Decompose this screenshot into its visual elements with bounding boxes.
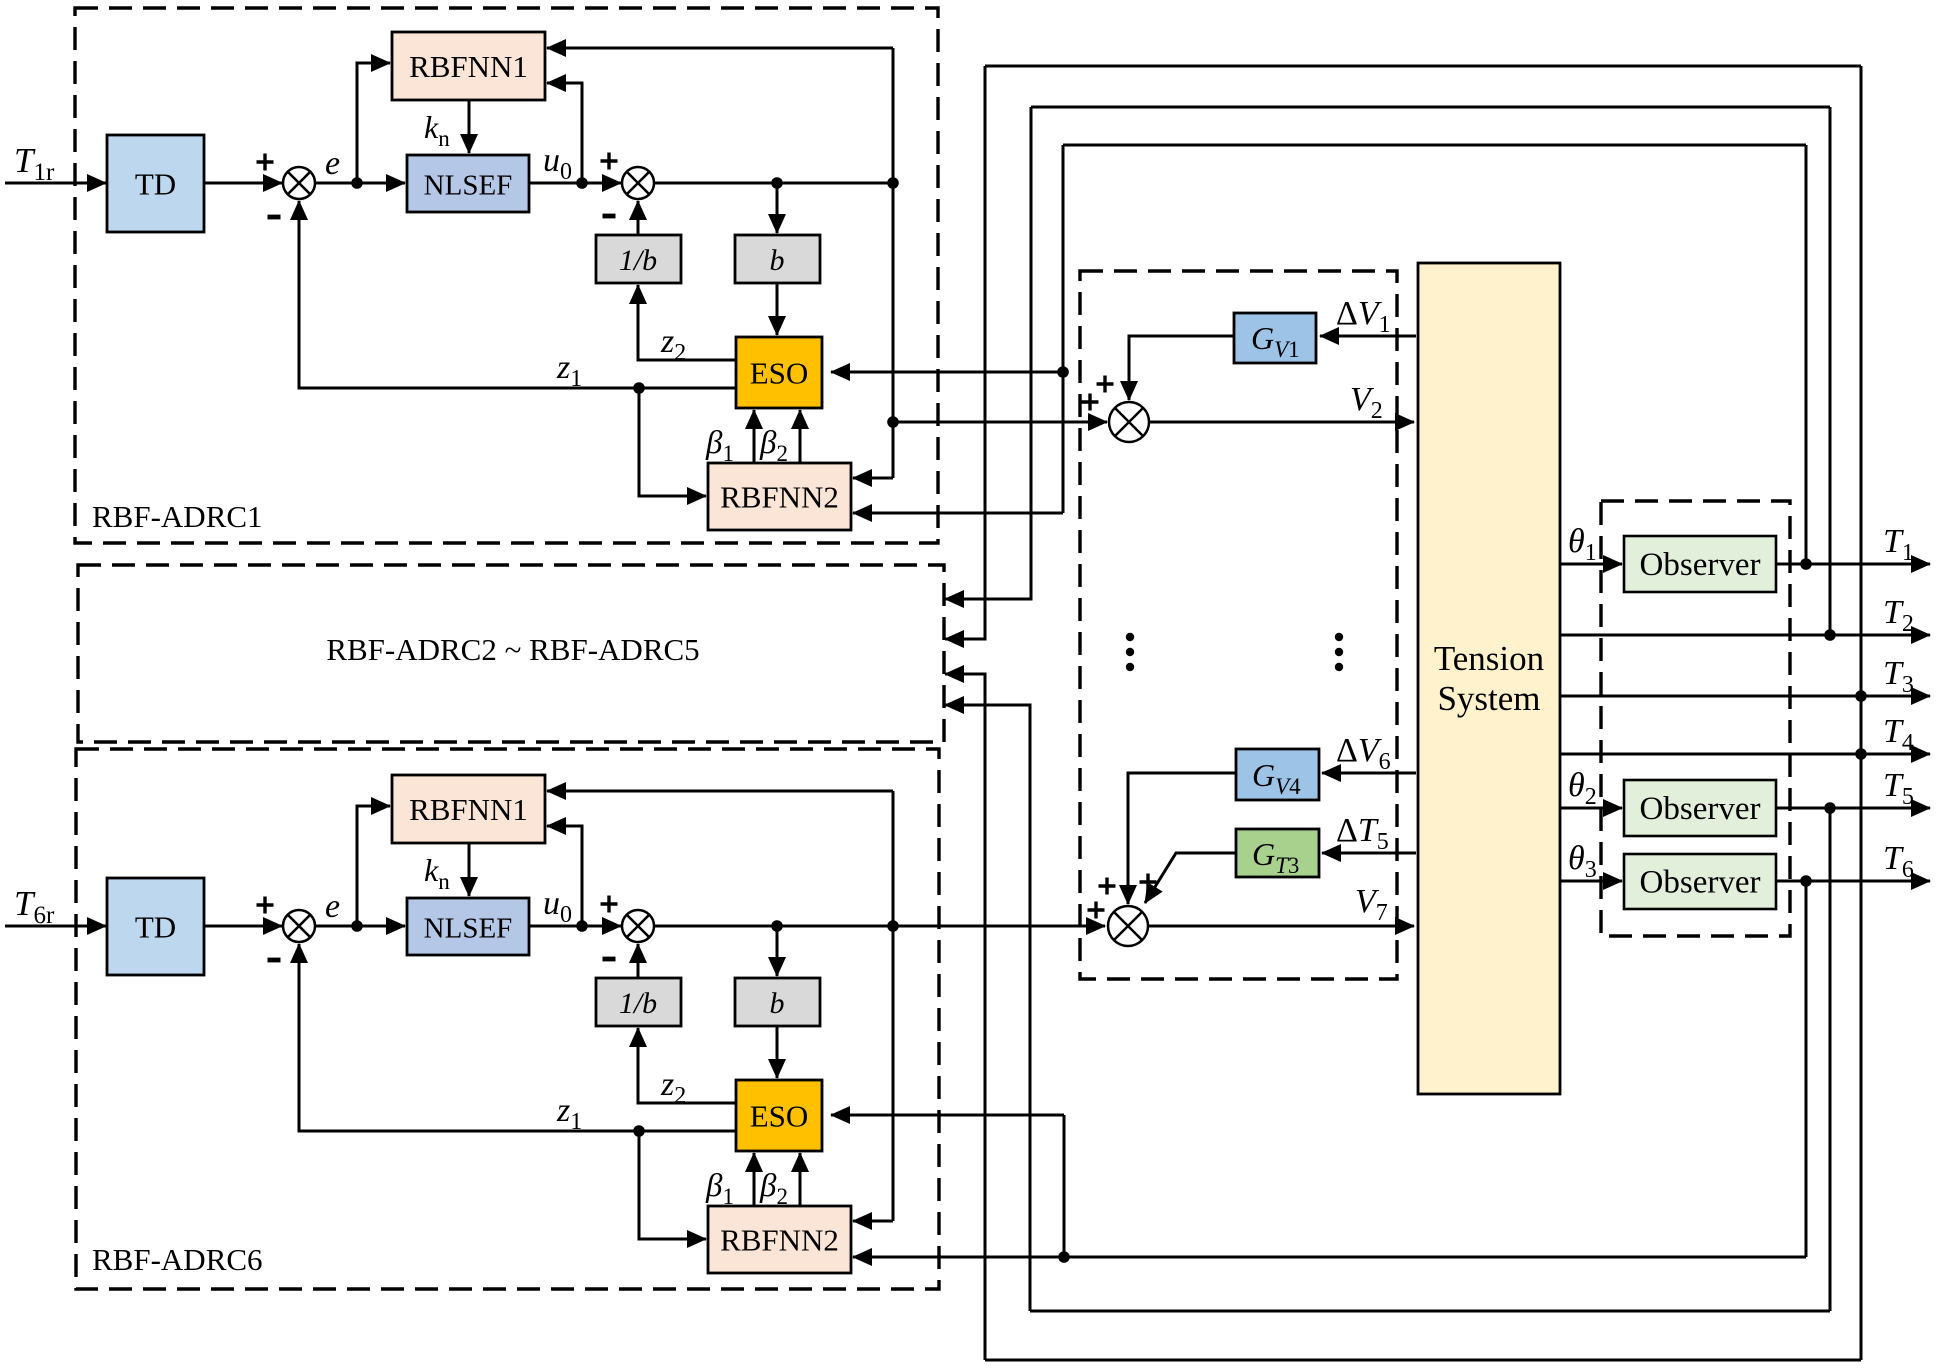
wire NLSEF to second sum with node u0 — [529, 925, 621, 928]
wire 1/b to second sum — [637, 944, 640, 978]
wire NLSEF to second sum with node u0 — [529, 182, 621, 185]
wire b to ESO — [776, 1026, 779, 1078]
dashed boundary speed-coupling block — [1080, 271, 1397, 979]
wire T1 output — [1776, 563, 1930, 566]
wire u vertical x=893 (module6) — [892, 791, 895, 1221]
svg-text:e: e — [325, 145, 340, 182]
wire T6 output — [1776, 880, 1930, 883]
svg-text:1/b: 1/b — [619, 244, 657, 277]
block RBFNN2-1 — [708, 463, 851, 530]
wire V7 lower plant sum to tension system — [1148, 925, 1414, 928]
block b gain 6 — [735, 978, 820, 1026]
block NLSEF1 — [407, 155, 529, 212]
wire beta2 RBFNN2 to ESO — [799, 1153, 802, 1206]
block Observer 1 — [1624, 536, 1776, 592]
dashed boundary observers — [1601, 501, 1790, 936]
svg-text:NLSEF: NLSEF — [424, 170, 513, 202]
block 1/b gain 1 — [596, 235, 681, 283]
wire u0 up to RBFNN1 right lower input — [547, 83, 582, 183]
block RBFNN1-6 — [392, 775, 545, 843]
block TD6 — [107, 878, 204, 975]
wire z1 node down to RBFNN2 left input — [639, 1131, 706, 1239]
block ESO1 — [736, 337, 822, 408]
svg-text:Observer: Observer — [1640, 791, 1761, 827]
node on z1 wire — [633, 1125, 645, 1137]
svg-text:ESO: ESO — [750, 1099, 809, 1134]
block TD1 — [107, 135, 204, 232]
wire into RBFNN2 upper right input (module1) — [853, 477, 893, 480]
wire bottom line y=1311 T5 feedback — [1030, 1310, 1830, 1313]
block b gain 1 — [735, 235, 820, 283]
block Observer 3 — [1624, 854, 1776, 909]
svg-text:System: System — [1437, 679, 1540, 718]
block RBFNN1-1 — [392, 32, 545, 100]
svg-text:Observer: Observer — [1640, 547, 1761, 583]
wire T2 output — [1560, 634, 1930, 637]
svg-text:ESO: ESO — [750, 356, 809, 391]
node T1 — [1800, 558, 1812, 570]
block G_V1 — [1234, 313, 1316, 363]
wire T2 feedback top line 2 — [1031, 106, 1830, 109]
wire sum to NLSEF with node e — [315, 925, 405, 928]
wire T3 feedback top line 1 — [985, 65, 1861, 68]
node u junction module6 — [887, 920, 899, 932]
wire b to ESO — [776, 283, 779, 335]
svg-text:RBF-ADRC2 ~ RBF-ADRC5: RBF-ADRC2 ~ RBF-ADRC5 — [326, 632, 699, 667]
wire into RBFNN2-6 upper right input — [853, 1220, 893, 1223]
svg-text:RBFNN1: RBFNN1 — [409, 792, 528, 827]
wire T1 feedback top line 3 — [1063, 144, 1806, 147]
minus sign at second sum — [603, 214, 616, 219]
block ESO6 — [736, 1080, 822, 1151]
wire V2 upper plant sum to tension system — [1149, 421, 1414, 424]
wire right vertical x=1806 lower segment T6 — [1805, 881, 1808, 1257]
node T1 feedback branch — [1057, 366, 1069, 378]
wire u down to b block — [776, 183, 779, 233]
dashed boundary RBF-ADRC2 ~ RBF-ADRC5 — [78, 565, 944, 742]
svg-text:TD: TD — [135, 167, 176, 202]
wire right vertical x=1830 upper segment T2 — [1829, 107, 1832, 635]
wire T3 output — [1560, 695, 1930, 698]
wire u to RBFNN1 top right input — [547, 47, 893, 50]
node T6 feedback branch — [1058, 1251, 1070, 1263]
node T3 — [1855, 690, 1867, 702]
summing junction S6b — [622, 910, 654, 942]
vertical ellipsis left — [1126, 633, 1134, 641]
wire z1 from ESO to first sum — [299, 944, 736, 1131]
svg-text:1/b: 1/b — [619, 987, 657, 1020]
wire right vertical x=1806 upper segment T1 — [1805, 145, 1808, 564]
plus sign at second sum — [601, 153, 618, 170]
svg-text:Observer: Observer — [1640, 865, 1761, 901]
wire T4 output — [1560, 753, 1930, 756]
wire TD to sum — [203, 925, 282, 928]
plus sign lower plant sum upper-right — [1140, 874, 1157, 891]
wire T2 feedback arrow into middle module — [945, 107, 1031, 599]
node T4 — [1855, 748, 1867, 760]
plus sign upper plant sum top — [1097, 376, 1114, 393]
wire u down to b block — [776, 926, 779, 976]
plus sign lower plant sum top — [1099, 878, 1116, 895]
wire T5 feedback arrow into middle module — [945, 705, 1030, 1311]
wire beta1 RBFNN2 to ESO — [753, 1153, 756, 1206]
plus sign at sum input — [257, 154, 274, 171]
summing junction lower plant — [1108, 906, 1148, 946]
svg-text:e: e — [325, 888, 340, 925]
wire theta1 to observer1 — [1560, 563, 1622, 566]
wire u to RBFNN1-6 top right input — [547, 790, 893, 793]
wire T6 feedback into ESO6 right input — [831, 1114, 1064, 1117]
minus sign at sum input — [268, 215, 281, 220]
block Observer 2 — [1624, 780, 1776, 836]
wire input to TD — [5, 182, 106, 185]
block RBFNN2-6 — [708, 1206, 851, 1273]
wire u vertical x=893 (module1): up to RBFNN1 top input, down to plant sum and RBFNN2 — [892, 48, 895, 478]
node T2 — [1824, 629, 1836, 641]
wire z2 from ESO to 1/b — [638, 285, 736, 360]
plus sign lower plant sum left — [1088, 902, 1105, 919]
wire z2 from ESO to 1/b — [638, 1028, 736, 1103]
wire T5 output — [1776, 807, 1930, 810]
wire T6 feedback vertical x=1064 — [1063, 1115, 1066, 1257]
summing junction S1b — [622, 167, 654, 199]
wire e up to RBFNN1 left input — [357, 63, 390, 183]
wire theta3 to observer3 — [1560, 880, 1622, 883]
wire theta2 to observer2 — [1560, 807, 1622, 810]
wire beta1 RBFNN2 to ESO — [753, 410, 756, 463]
node u junction to feedback vertical (module1) — [887, 177, 899, 189]
node u on output wire branch to b — [771, 920, 783, 932]
dashed boundary RBF-ADRC6 — [76, 749, 939, 1289]
plus sign at sum input — [257, 897, 274, 914]
node T5 — [1824, 802, 1836, 814]
wire T4 feedback arrow into middle module — [945, 674, 985, 1360]
wire z1 from ESO to first sum — [299, 201, 736, 388]
svg-text:RBFNN2: RBFNN2 — [720, 1223, 839, 1258]
wire RBFNN1 to NLSEF gain k_n — [468, 843, 471, 896]
node u branch to plant summing junction — [887, 416, 899, 428]
wire u output of second sum to feedback vertical — [654, 182, 893, 185]
wire T1 feedback into ESO1 right input — [831, 371, 1063, 374]
svg-text:b: b — [770, 987, 785, 1020]
wire e up to RBFNN1 left input — [357, 806, 390, 926]
wire beta2 RBFNN2 to ESO — [799, 410, 802, 463]
wire u0 up to RBFNN1 right lower input — [547, 826, 582, 926]
summing junction S6a — [283, 910, 315, 942]
wire T6 feedback into RBFNN2-6 lower right input — [853, 1256, 1806, 1259]
wire dV6 from tension system to G_V4 — [1322, 772, 1416, 775]
svg-text:NLSEF: NLSEF — [424, 913, 513, 945]
wire z1 node down to RBFNN2 left input — [639, 388, 706, 496]
dashed boundary RBF-ADRC1 — [75, 8, 938, 543]
wire G_V4 to lower plant sum — [1128, 773, 1236, 904]
wire TD to sum — [203, 182, 282, 185]
svg-text:RBFNN2: RBFNN2 — [720, 480, 839, 515]
wire sum to NLSEF with node e — [315, 182, 405, 185]
wire right vertical x=1861 T3/T4 feedback — [1860, 66, 1863, 1360]
node u on output wire branch to b — [771, 177, 783, 189]
svg-text:Tension: Tension — [1434, 639, 1544, 678]
vertical ellipsis right — [1335, 633, 1343, 641]
node on z1 wire — [633, 382, 645, 394]
node T6 — [1800, 875, 1812, 887]
wire u output of module6 to lower plant sum junction — [654, 925, 1105, 928]
wire RBFNN1 to NLSEF gain k_n — [468, 100, 471, 153]
block 1/b gain 6 — [596, 978, 681, 1026]
svg-text:RBF-ADRC1: RBF-ADRC1 — [92, 499, 263, 534]
plus sign at second sum — [601, 896, 618, 913]
wire bottom line y=1360 T4 feedback — [985, 1359, 1861, 1362]
svg-text:TD: TD — [135, 910, 176, 945]
block G_V4 — [1236, 749, 1319, 800]
wire T1 feedback vertical x=1063 — [1062, 145, 1065, 513]
wire right vertical x=1830 lower segment T5 — [1829, 808, 1832, 1311]
wire T3 feedback arrow into middle module — [945, 66, 985, 639]
block G_T3 — [1236, 829, 1319, 877]
block Tension System — [1418, 263, 1560, 1094]
wire input to TD — [5, 925, 106, 928]
plus sign upper plant sum left — [1082, 394, 1099, 411]
wire T1 feedback into RBFNN2 lower right input (module1) — [853, 512, 1063, 515]
svg-text:b: b — [770, 244, 785, 277]
wire G_T3 to lower plant sum diagonal — [1145, 853, 1236, 903]
wire dT5 from tension system to G_T3 — [1322, 852, 1416, 855]
summing junction S1a — [283, 167, 315, 199]
wire G_V1 to upper plant sum — [1129, 336, 1234, 400]
summing junction upper plant — [1109, 402, 1149, 442]
block NLSEF6 — [407, 898, 529, 955]
wire dV1 from tension system to G_V1 — [1320, 335, 1416, 338]
wire u branch to upper plant sum junction — [893, 421, 1107, 424]
minus sign at sum input — [268, 958, 281, 963]
svg-text:RBF-ADRC6: RBF-ADRC6 — [92, 1242, 263, 1277]
svg-text:RBFNN1: RBFNN1 — [409, 49, 528, 84]
minus sign at second sum — [603, 957, 616, 962]
wire 1/b to second sum — [637, 201, 640, 235]
